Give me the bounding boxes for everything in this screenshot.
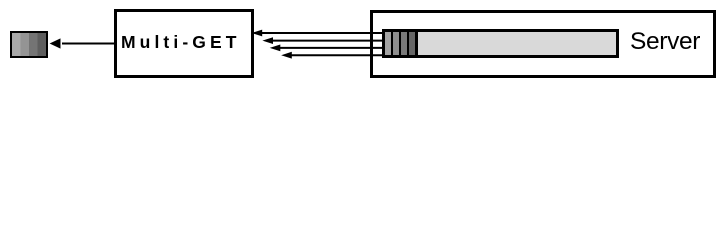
response arrow 2: head: [262, 37, 273, 44]
Multi-GET label: [121, 32, 241, 52]
arrow Multi-GET to client: shaft: [62, 43, 116, 45]
response arrow 2: shaft: [271, 40, 385, 42]
response arrow 1: head: [252, 30, 263, 37]
arrows overlay: [0, 0, 722, 89]
server response bar: [382, 29, 619, 58]
response arrow 3: shaft: [278, 47, 385, 49]
response arrow 1: shaft: [260, 32, 385, 34]
arrow Multi-GET to client: head: [50, 38, 61, 48]
Multi-GET box: [114, 9, 254, 78]
response arrow 3: head: [270, 45, 281, 52]
response arrow 4: head: [281, 52, 292, 59]
striped chunk cells in bar: [385, 32, 418, 55]
response arrow 4: shaft: [290, 54, 385, 56]
Server label: [630, 28, 700, 55]
server box: [370, 10, 716, 79]
client data box (striped gradient): [10, 31, 48, 58]
